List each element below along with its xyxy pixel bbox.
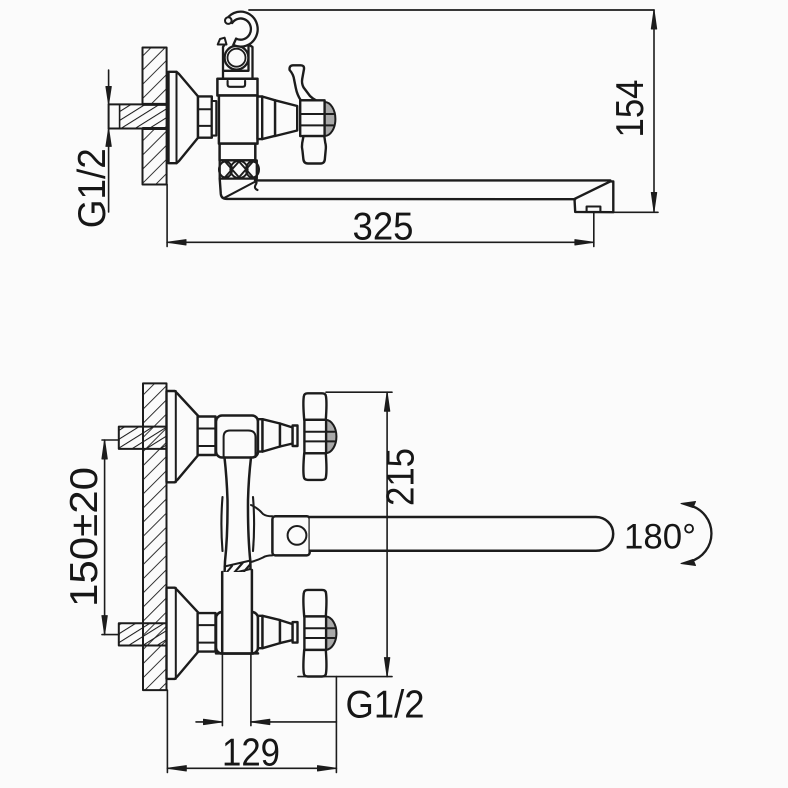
hook clamp (top view) [218,38,253,79]
collar ring (top view) [212,101,217,136]
rotation arc 180° [681,502,711,566]
upper escutcheon (front view) [167,391,199,482]
svg-text:325: 325 [353,206,414,249]
dimension G1/2 (outlet thread) [196,655,336,726]
knurled nut (top view) [219,160,259,178]
svg-text:215: 215 [379,448,422,506]
svg-text:180°: 180° [624,518,696,557]
escutcheon (top view) [169,72,199,163]
upper cross handle (front view) [303,393,336,480]
faucet body (top view) [217,79,257,161]
valve bonnet adapter (top view) [258,97,298,140]
supply pipe (top view) [109,104,167,128]
hex nut (top view) [198,96,212,137]
dimension G1/2 (top view, pipe thread) [106,70,111,212]
lower cross handle (front view) [303,590,336,677]
dimension 325 [167,184,594,246]
svg-text:150±20: 150±20 [63,467,106,607]
wall plate (front view) [143,383,167,690]
body neck between valves (front view) [221,458,254,576]
spout swivel block (front view) [251,505,310,562]
hook (top view) [225,12,258,47]
thread band on outlet (front view) [225,561,251,576]
svg-text:154: 154 [609,80,652,138]
hook ring (top view) [225,46,249,70]
dimension 215 [298,392,392,676]
svg-text:G1/2: G1/2 [346,684,425,727]
upper valve body (front view) [216,416,258,458]
svg-text:G1/2: G1/2 [71,148,114,228]
swivel spout bar (front view) [310,517,614,551]
cross handle (top view) [290,65,336,163]
wire: top reference line [249,9,654,11]
upper supply pipe (front view) [119,427,167,449]
dimension 150±20 [102,440,119,635]
dimension 154 [613,10,658,212]
upper adapter (front view) [258,419,298,451]
dimension 129 [167,677,336,773]
svg-text:129: 129 [222,732,280,775]
spout (top view) [220,179,614,213]
lower supply pipe (front view) [119,623,167,645]
shower outlet pipe (front view) [216,570,258,653]
lower adapter (front view) [258,616,298,648]
upper hex nut (front view) [198,417,216,456]
wall plate (top view) [143,48,167,185]
lower escutcheon (front view) [167,588,199,679]
lower hex nut (front view) [198,613,216,652]
lower valve body (front view) [216,612,258,654]
